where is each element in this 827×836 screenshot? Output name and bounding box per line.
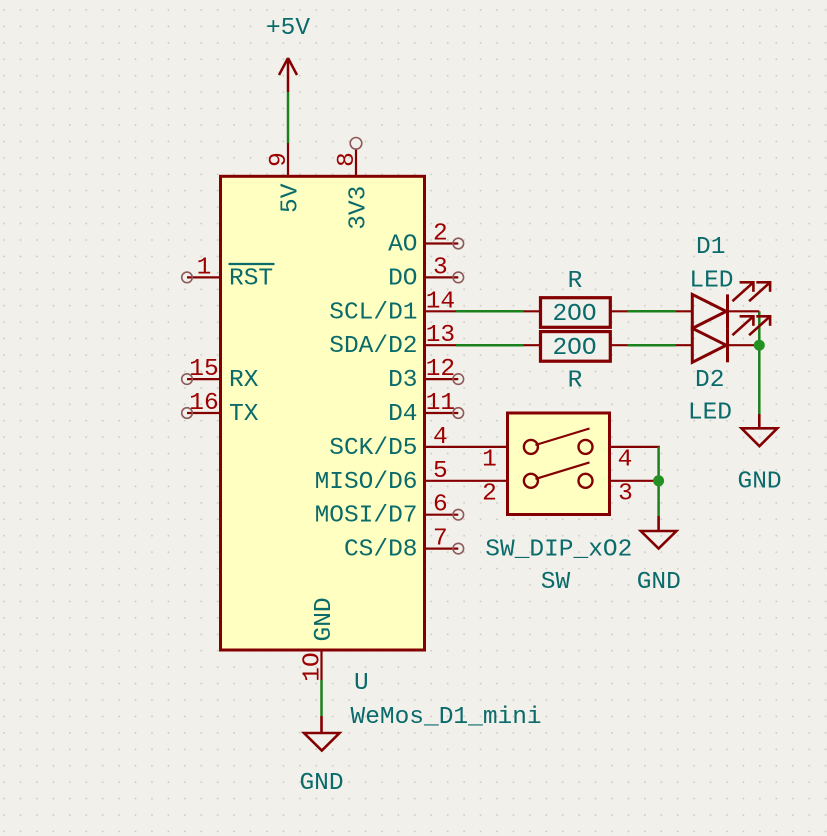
svg-text:AO: AO: [388, 232, 417, 259]
svg-text:+5V: +5V: [266, 15, 310, 42]
svg-text:2: 2: [433, 221, 448, 248]
LED D2: [675, 315, 771, 362]
svg-text:5: 5: [433, 458, 448, 485]
svg-text:TX: TX: [229, 401, 259, 428]
wire switch to GND vertical: [657, 447, 660, 516]
pin 5 MISO/D6 + wire to switch pin 2: [315, 458, 508, 496]
svg-text:SW: SW: [541, 569, 571, 596]
svg-text:16: 16: [189, 390, 218, 417]
pin 11 D4: [388, 390, 464, 428]
resistor R2 200: [524, 332, 628, 362]
switch pole circles SW2: [524, 474, 538, 488]
junction at D2 cathode: [754, 340, 765, 351]
resistor R1 200: [524, 298, 628, 328]
pin 8 (3V3) top pin unconnected: [334, 138, 373, 230]
svg-text:5V: 5V: [278, 183, 305, 213]
svg-text:12: 12: [426, 356, 455, 383]
pin 2 A0: [388, 221, 464, 259]
wire R2 to D2 anode: [628, 344, 676, 347]
LED D1: [675, 281, 771, 328]
wire D1 cathode down to GND: [758, 311, 761, 414]
svg-text:11: 11: [426, 390, 455, 417]
svg-text:1O: 1O: [300, 652, 327, 681]
wire pin14 to R1: [456, 310, 524, 313]
switch pin 3 number + wire: [610, 480, 659, 507]
pin 6 MOSI/D7: [315, 492, 464, 530]
svg-text:3: 3: [433, 254, 448, 281]
svg-text:SCL/D1: SCL/D1: [329, 299, 417, 326]
svg-text:SCK/D5: SCK/D5: [329, 435, 417, 462]
switch pin 4 number + wire: [610, 447, 660, 474]
svg-text:2OO: 2OO: [552, 301, 596, 328]
svg-text:R: R: [568, 368, 583, 395]
op-amp U1: main IC body WeMos_D1_mini: [221, 176, 425, 650]
svg-text:GND: GND: [299, 770, 343, 797]
ground symbol under IC: [304, 716, 340, 751]
svg-text:D3: D3: [388, 367, 417, 394]
svg-text:3: 3: [618, 480, 633, 507]
power symbol +5V: [279, 58, 297, 92]
svg-text:8: 8: [334, 152, 361, 167]
switch lever SW1: [536, 429, 590, 446]
svg-text:DO: DO: [388, 265, 417, 292]
svg-text:3V3: 3V3: [346, 186, 373, 230]
ground symbol under switch: [641, 516, 677, 549]
switch lever SW2: [536, 462, 590, 479]
svg-text:GND: GND: [637, 569, 681, 596]
svg-text:1: 1: [482, 447, 497, 474]
svg-text:CS/D8: CS/D8: [344, 537, 418, 564]
svg-text:4: 4: [618, 447, 633, 474]
wire pin10 to GND: [320, 680, 323, 716]
svg-text:7: 7: [433, 526, 448, 553]
wire R1 to D1 anode: [628, 310, 676, 313]
svg-text:RX: RX: [229, 367, 259, 394]
pin 3 D0: [388, 254, 464, 292]
pin 16 TX left: [182, 390, 259, 428]
svg-text:15: 15: [189, 356, 218, 383]
pin 4 SCK/D5 + wire to switch pin 1: [329, 424, 507, 462]
pin 14 SCL/D1: [329, 288, 456, 326]
pin 7 CS/D8: [344, 526, 464, 564]
ground symbol right of LEDs: [742, 414, 778, 446]
svg-text:MISO/D6: MISO/D6: [315, 469, 418, 496]
wire pin13 to R2: [456, 344, 524, 347]
svg-text:SW_DIP_xO2: SW_DIP_xO2: [485, 536, 632, 563]
svg-text:SDA/D2: SDA/D2: [329, 333, 417, 360]
svg-text:4: 4: [433, 424, 448, 451]
svg-text:D1: D1: [696, 234, 725, 261]
svg-text:6: 6: [433, 492, 448, 519]
switch pole circles SW1: [524, 440, 538, 454]
svg-text:D2: D2: [695, 367, 724, 394]
svg-text:RST: RST: [229, 266, 273, 293]
svg-text:14: 14: [426, 288, 455, 315]
svg-text:2OO: 2OO: [552, 335, 596, 362]
svg-text:MOSI/D7: MOSI/D7: [315, 503, 418, 530]
pin 15 RX left: [182, 356, 259, 394]
svg-text:LED: LED: [689, 268, 733, 295]
pin 13 SDA/D2: [329, 322, 456, 360]
svg-text:9: 9: [266, 152, 293, 167]
svg-text:R: R: [568, 268, 583, 295]
pin 9 (5V) top pin: [266, 143, 305, 213]
svg-text:WeMos_D1_mini: WeMos_D1_mini: [351, 704, 542, 731]
svg-text:1: 1: [197, 254, 212, 281]
svg-text:GND: GND: [311, 597, 338, 641]
pin 12 D3: [388, 356, 464, 394]
svg-text:U: U: [354, 670, 369, 697]
pin 10 GND bottom: [300, 597, 338, 681]
svg-text:GND: GND: [738, 469, 782, 496]
svg-text:13: 13: [426, 322, 455, 349]
pin 1 RST left: [182, 254, 275, 292]
svg-text:D4: D4: [388, 401, 417, 428]
wire from +5V to pin 9: [287, 92, 290, 143]
junction at switch pin 3: [653, 475, 664, 486]
switch SW_DIP_x02 body: [508, 413, 610, 515]
svg-text:2: 2: [482, 480, 497, 507]
svg-text:LED: LED: [688, 400, 732, 427]
